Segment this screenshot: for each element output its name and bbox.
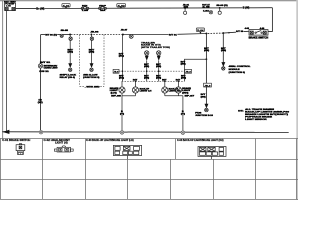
ground join bar right pair: [165, 95, 183, 97]
svg-text:(26): (26): [89, 52, 95, 54]
4wd terminal circle: [90, 68, 93, 71]
node on dashed wire x=90: [90, 34, 92, 36]
interior light tap connector: [38, 64, 42, 68]
svg-text:C-03 BACK-UP LIGHT/BRAKE LIGHT: C-03 BACK-UP LIGHT/BRAKE LIGHT (LH): [86, 139, 134, 142]
shift-lock terminal circle: [69, 68, 72, 71]
svg-text:B+ (W): B+ (W): [36, 7, 44, 10]
svg-text:LIGHT (H): LIGHT (H): [55, 142, 68, 145]
svg-text:(39): (39): [181, 78, 187, 80]
svg-text:1.25B: 1.25B: [82, 10, 89, 12]
connector label box X-01 above top wire: [62, 4, 71, 9]
4WAL terminal: [222, 67, 225, 70]
arrow to 4wd module: [90, 63, 94, 68]
svg-text:RELAY (JB 4): RELAY (JB 4): [60, 76, 76, 79]
node JB-03 on top wire: [216, 5, 228, 14]
bus junction at x=41: [39, 130, 43, 134]
svg-text:4-05: 4-05: [245, 27, 249, 30]
junction dot at x=122.9: [122, 34, 124, 36]
4wd tap connector: [90, 37, 93, 40]
trailer feed terminal 1: [145, 51, 149, 55]
node on dashed wire x=68.9: [69, 34, 71, 36]
svg-text:B/T 31: B/T 31: [169, 34, 178, 36]
svg-text:(Y): (Y): [181, 113, 186, 115]
svg-text:15A: 15A: [100, 9, 106, 12]
connector label box X-02 above top wire: [117, 4, 126, 9]
svg-text:(36): (36): [221, 50, 227, 52]
svg-text:B/T 36 (D): B/T 36 (D): [45, 34, 57, 36]
svg-text:JB-9: JB-9: [204, 85, 210, 87]
back-up light RH lamp: [162, 81, 168, 96]
svg-text:B/T 31: B/T 31: [40, 62, 50, 64]
svg-text:CARGO LIGHT: CARGO LIGHT: [44, 67, 59, 70]
svg-text:(W): (W): [38, 102, 43, 104]
ground drop left: [121, 96, 123, 131]
arrow to FD8 junction: [205, 104, 209, 109]
arrow to 4WAL module: [221, 62, 225, 67]
junction tick: [229, 32, 231, 34]
branch wire to right lamp: [185, 59, 207, 81]
dashed jumper 2 above lamps: [122, 81, 185, 83]
bus junction at x=122: [120, 131, 124, 135]
svg-text:(LH): (LH): [111, 92, 118, 94]
svg-text:(39): (39): [204, 50, 210, 52]
ground bus left arrow: [2, 130, 9, 134]
svg-text:(34): (34): [156, 65, 162, 68]
C-01 connector drawing: [16, 144, 25, 155]
svg-text:(35): (35): [144, 78, 150, 80]
svg-text:ALL TIME: ALL TIME: [202, 6, 210, 9]
svg-text:(WITH TRAILER TOW): (WITH TRAILER TOW): [141, 46, 170, 49]
ground drop right: [182, 96, 184, 131]
svg-text:JB-07: JB-07: [121, 30, 129, 32]
ground join bar left pair: [122, 95, 136, 97]
connector label box on FD8 wire: [204, 83, 212, 87]
svg-text:JUNCTION B-10: JUNCTION B-10: [195, 115, 214, 117]
svg-text:BTN: BTN: [82, 5, 88, 7]
svg-text:NOTE :: NOTE :: [238, 110, 244, 112]
junction dot at x=206.4: [205, 33, 207, 35]
fuse STOP: [99, 7, 107, 10]
svg-text:(JUNCTION 6): (JUNCTION 6): [229, 72, 246, 74]
node JB-01 on top wire: [183, 5, 190, 15]
svg-text:EF-07: EF-07: [185, 95, 196, 97]
svg-text:JB-06: JB-06: [90, 32, 98, 34]
FD8 junction terminal: [205, 108, 209, 112]
svg-text:B/T 39: B/T 39: [236, 31, 244, 33]
svg-text:EF-08: EF-08: [111, 95, 122, 97]
svg-text:B (W): B (W): [243, 8, 250, 10]
svg-text:JB-05: JB-05: [60, 30, 68, 32]
svg-text:STOP: STOP: [99, 5, 107, 7]
svg-text:4-06: 4-06: [260, 27, 264, 30]
trailer feed terminal 2: [157, 51, 161, 55]
bus junction at x=182.9: [181, 131, 185, 135]
mid wire from brake switch: [41, 31, 249, 34]
svg-text:LIGHT LH: LIGHT LH: [140, 91, 153, 93]
left drop wire x=40.5: [40, 35, 42, 131]
svg-text:BRAKE SWITCH: BRAKE SWITCH: [249, 37, 269, 40]
svg-text:LIGHT MIRROR: LIGHT MIRROR: [245, 119, 267, 121]
page right edge shadow: [296, 0, 298, 200]
top wire B+: [16, 8, 273, 32]
svg-text:(RH): (RH): [182, 92, 189, 94]
svg-text:(39): (39): [181, 64, 187, 66]
4WAL drop wire x=223.3: [222, 33, 224, 62]
fuse BTN: [81, 7, 89, 10]
svg-text:P/S 21: P/S 21: [39, 71, 48, 73]
svg-text:MODULE: MODULE: [229, 69, 241, 71]
junction dot at x=223.3: [222, 32, 224, 34]
svg-text:(31): (31): [119, 78, 125, 80]
svg-text:JB-8: JB-8: [114, 72, 119, 74]
svg-text:C-01 BRAKE SWITCH: C-01 BRAKE SWITCH: [2, 139, 30, 142]
svg-text:- WITH 4WD: - WITH 4WD: [85, 85, 100, 88]
brake switch box: [249, 30, 268, 35]
FD8 drop wire x=206.4: [205, 34, 207, 105]
C-04 connector drawing: [198, 147, 226, 160]
svg-text:JB-03 (D): JB-03 (D): [216, 5, 228, 7]
svg-text:1.0B: 1.0B: [6, 6, 12, 8]
svg-text:JB-8: JB-8: [185, 72, 190, 74]
svg-text:(39): (39): [201, 96, 207, 98]
dashed option enclosure WITH 4WD: [80, 35, 104, 87]
C-02 connector drawing: [54, 146, 73, 152]
battery fuse block box: [5, 3, 16, 10]
arrow to shift-lock relay: [68, 63, 72, 68]
page top border: [0, 0, 298, 1]
connector symbol on mid wire: [129, 34, 133, 38]
shift-lock tap connector: [69, 37, 72, 40]
svg-text:(35): (35): [144, 66, 150, 68]
ground bus: [2, 131, 289, 134]
dashed jumper 1: [113, 69, 191, 73]
brake light RH lamp: [175, 81, 181, 96]
page left border: [1, 1, 4, 139]
svg-text:(34): (34): [156, 77, 162, 80]
svg-text:(JUNCTION 3): (JUNCTION 3): [83, 77, 100, 79]
brake feed wire x=122.4: [121, 35, 123, 82]
svg-text:(31): (31): [119, 56, 125, 58]
svg-text:1.8A: 1.8A: [203, 9, 210, 12]
brake light LH lamp: [119, 81, 125, 96]
svg-text:(25): (25): [68, 52, 74, 54]
tap connector on wire x=61.7: [60, 34, 63, 37]
in-line splice on top wire: [202, 4, 212, 14]
back-up light LH lamp: [132, 81, 138, 96]
svg-text:C-04 BACK-UP LIGHT/BRAKE LIGHT: C-04 BACK-UP LIGHT/BRAKE LIGHT (RH): [177, 139, 224, 142]
connector label box above mid wire: [196, 28, 205, 34]
svg-text:(D): (D): [184, 7, 189, 9]
connector table lines: [0, 139, 298, 200]
svg-text:(Y): (Y): [120, 113, 125, 115]
battery ground wire x=6.5: [6, 11, 8, 132]
svg-text:4WAL CONTROL: 4WAL CONTROL: [229, 65, 252, 68]
C-03 connector drawing: [113, 145, 141, 159]
